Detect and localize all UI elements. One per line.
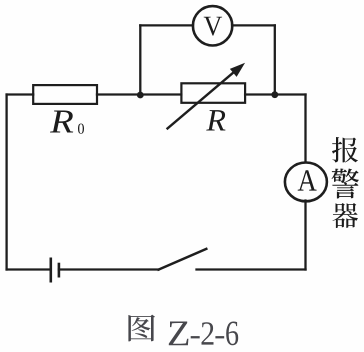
wire: top-left horizontal to R0 (7, 93, 34, 95)
wire: battery to bottom left corner (7, 268, 51, 270)
battery cell: short plate (58, 264, 61, 276)
rheostat arrow head (231, 64, 243, 75)
caption 6 (226, 322, 238, 346)
wire: right side down to ammeter (304, 95, 306, 163)
wire: junction A up to voltmeter branch (139, 25, 141, 94)
voltmeter U1 circle (193, 6, 232, 45)
wire: switch pivot to battery (59, 268, 159, 270)
label 报 (alarm char 1) (332, 137, 358, 163)
node junction A (dot) (137, 92, 144, 99)
ammeter A1 circle (285, 163, 327, 202)
battery cell: long plate (49, 259, 52, 281)
label R (rheostat) (206, 110, 225, 130)
label R0 letter R (50, 111, 73, 133)
label R0 subscript 0 (78, 124, 84, 134)
label 器 (alarm char 3) (333, 203, 359, 228)
label V (voltmeter) (204, 17, 222, 36)
wire: ammeter to bottom right corner (304, 201, 306, 270)
wire: voltmeter branch down to junction B (274, 25, 276, 94)
caption Z (169, 322, 189, 346)
wire: left vertical side (5, 95, 7, 270)
wire: bottom right segment to switch contact (197, 268, 306, 270)
label 警 (alarm char 2) (332, 169, 360, 199)
caption hyphen 1 (191, 336, 200, 338)
caption hyphen 2 (215, 336, 224, 338)
caption 图 (figure) (128, 315, 155, 342)
wire: R to right corner through junction B (245, 93, 305, 95)
resistor R (rheostat body) (181, 83, 245, 103)
wire: R0 to rheostat R through junction A (97, 93, 181, 95)
wire: voltmeter left lead (140, 24, 193, 26)
rheostat arrow shaft (167, 72, 235, 130)
resistor R0 (33, 85, 97, 104)
wire: voltmeter right lead (232, 24, 275, 26)
node junction B (dot) (271, 91, 278, 98)
switch S1 lever (open) (159, 249, 207, 270)
label A (ammeter) (298, 170, 317, 190)
caption 2 (202, 322, 214, 344)
